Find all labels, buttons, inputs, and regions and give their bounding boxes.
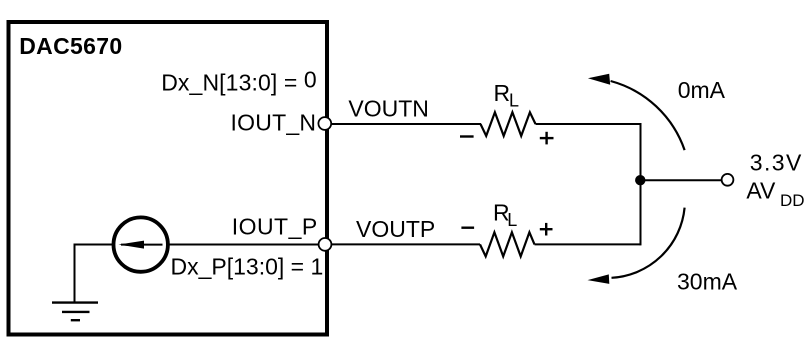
vertical wire joining outputs [640, 123, 642, 245]
minus lower [461, 226, 474, 228]
pin IOUT_P [319, 238, 332, 251]
pin IOUT_N [318, 117, 331, 130]
svg-text:R: R [494, 80, 511, 106]
wire VOUTP [331, 243, 480, 245]
wire lower right [535, 243, 641, 245]
DAC5670 box [9, 22, 328, 335]
resistor RL upper [481, 112, 536, 136]
svg-text:L: L [509, 91, 519, 111]
svg-text:L: L [507, 210, 517, 230]
wire current source to ground [75, 245, 113, 303]
svg-text:VOUTN: VOUTN [348, 96, 429, 122]
svg-text:Dx_N[13:0] = 0: Dx_N[13:0] = 0 [161, 67, 317, 96]
junction dot [635, 175, 645, 185]
minus upper [460, 135, 474, 137]
svg-text:IOUT_N: IOUT_N [231, 109, 317, 135]
wire to AVDD terminal [641, 179, 722, 181]
svg-text:30mA: 30mA [677, 269, 738, 295]
svg-text:Dx_P[13:0] = 1: Dx_P[13:0] = 1 [171, 253, 324, 279]
ground [52, 303, 98, 321]
current source I1 [114, 217, 168, 271]
arc arrow 30mA [612, 208, 685, 278]
plus upper [540, 132, 554, 145]
wire upper right [536, 123, 641, 125]
arc arrow 0mA [611, 81, 685, 150]
svg-text:VOUTP: VOUTP [356, 216, 435, 242]
svg-text:3.3V: 3.3V [750, 150, 802, 176]
svg-text:DD: DD [780, 191, 805, 210]
wire VOUTN [331, 123, 481, 125]
AVDD terminal [722, 174, 734, 186]
svg-text:AV: AV [746, 178, 776, 204]
svg-text:DAC5670: DAC5670 [19, 33, 122, 59]
resistor RL lower [480, 232, 535, 256]
svg-text:0mA: 0mA [678, 77, 726, 103]
plus lower [540, 223, 553, 236]
wire current source to IOUT_P pin [168, 244, 320, 246]
svg-text:IOUT_P: IOUT_P [232, 213, 318, 239]
